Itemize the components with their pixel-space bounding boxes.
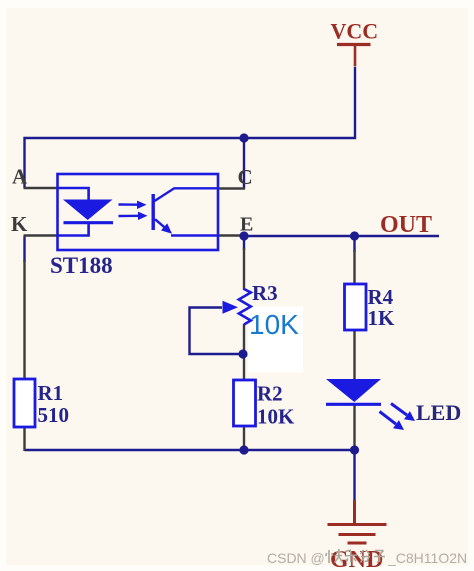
- svg-text:A: A: [12, 165, 28, 189]
- svg-text:10K: 10K: [249, 309, 299, 340]
- svg-text:OUT: OUT: [380, 212, 432, 238]
- svg-text:K: K: [11, 212, 28, 236]
- svg-text:10K: 10K: [257, 405, 295, 429]
- svg-text:C: C: [238, 165, 253, 189]
- svg-text:CSDN @: CSDN @: [267, 550, 325, 566]
- svg-text:E: E: [240, 214, 253, 236]
- svg-text:_C8H11O2N: _C8H11O2N: [387, 550, 467, 566]
- svg-text:510: 510: [38, 403, 70, 427]
- svg-text:1K: 1K: [368, 306, 396, 330]
- svg-text:R1: R1: [38, 381, 64, 405]
- svg-text:R2: R2: [257, 382, 283, 406]
- svg-text:LED: LED: [416, 400, 461, 425]
- svg-text:ST188: ST188: [50, 253, 113, 278]
- svg-text:VCC: VCC: [331, 19, 379, 44]
- svg-text:R3: R3: [252, 281, 278, 305]
